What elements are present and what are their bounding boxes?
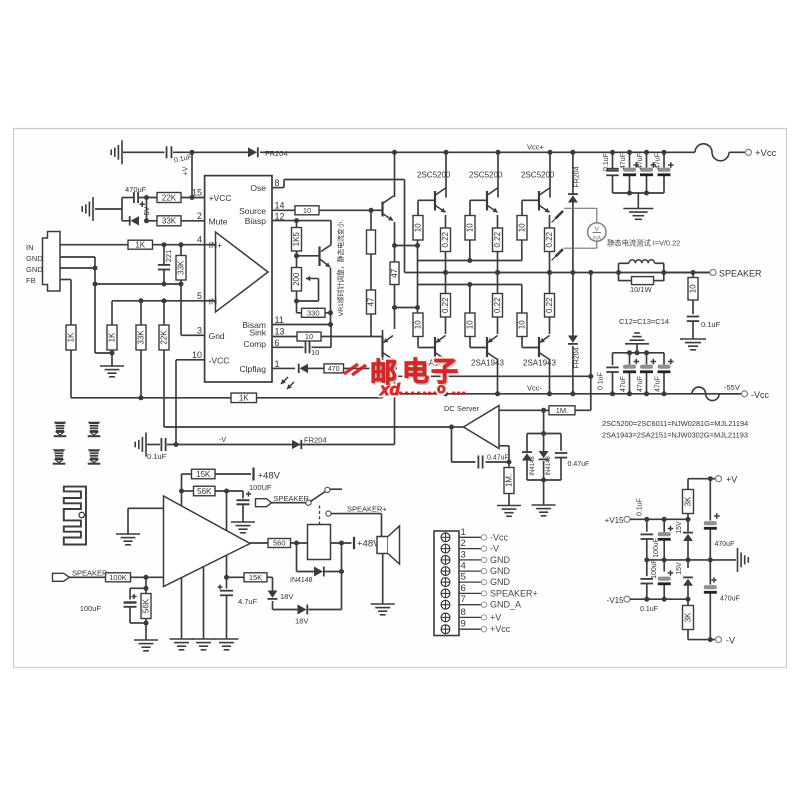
svg-text:56K: 56K — [141, 598, 150, 613]
svg-text:IN4148: IN4148 — [290, 577, 313, 584]
svg-text:+V: +V — [726, 475, 737, 485]
svg-text:+V15: +V15 — [605, 516, 624, 525]
svg-text:静态电流测试 I=V/0.22: 静态电流测试 I=V/0.22 — [607, 239, 680, 248]
svg-text:4: 4 — [197, 235, 202, 245]
svg-text:1K: 1K — [239, 394, 249, 403]
svg-text:47: 47 — [390, 268, 399, 277]
svg-text:-Vcc: -Vcc — [490, 532, 509, 542]
svg-text:o: o — [437, 380, 446, 396]
svg-text:47uF: 47uF — [620, 376, 627, 392]
svg-text:100UF: 100UF — [249, 483, 272, 492]
svg-text:8: 8 — [461, 607, 466, 618]
svg-text:200: 200 — [292, 272, 301, 286]
svg-text:100uF: 100uF — [80, 604, 102, 613]
svg-text:9: 9 — [461, 619, 466, 630]
svg-text:10: 10 — [413, 320, 422, 329]
svg-text:47uF: 47uF — [655, 153, 662, 169]
svg-text:Gnd: Gnd — [209, 331, 225, 341]
svg-text:0.1uF: 0.1uF — [640, 606, 658, 613]
svg-text:3: 3 — [461, 549, 466, 560]
svg-text:FR204: FR204 — [304, 436, 327, 445]
svg-text:-55V: -55V — [724, 383, 740, 392]
svg-text:100uF: 100uF — [653, 538, 660, 558]
svg-text:SPEAKER+: SPEAKER+ — [490, 588, 538, 598]
svg-text:15: 15 — [192, 188, 202, 198]
svg-text:xd: xd — [379, 380, 400, 399]
svg-text:SPEAKER: SPEAKER — [274, 494, 310, 503]
svg-text:GND: GND — [26, 265, 43, 274]
svg-text:Clpflag: Clpflag — [240, 364, 267, 374]
svg-text:10: 10 — [517, 320, 526, 329]
svg-text:14: 14 — [275, 201, 285, 211]
svg-text:11: 11 — [275, 315, 284, 325]
svg-text:5V: 5V — [144, 206, 151, 215]
svg-text:47uF: 47uF — [637, 153, 644, 169]
svg-text:V: V — [595, 226, 600, 233]
svg-text:2: 2 — [461, 538, 466, 549]
svg-text:10: 10 — [303, 206, 311, 215]
svg-text:FR204: FR204 — [574, 347, 581, 368]
svg-text:10/1W: 10/1W — [630, 285, 653, 294]
svg-text:VR1顺时针调整，静态电流变小.: VR1顺时针调整，静态电流变小. — [336, 220, 345, 317]
svg-text:470: 470 — [328, 366, 340, 373]
svg-text:0.22: 0.22 — [545, 297, 554, 313]
svg-text:33K: 33K — [136, 330, 145, 345]
svg-text:0.47uF: 0.47uF — [568, 461, 590, 468]
svg-text:SPEAKER+: SPEAKER+ — [347, 505, 387, 514]
svg-text:-V: -V — [490, 544, 499, 554]
svg-text:18V: 18V — [295, 617, 308, 626]
svg-text:470uF: 470uF — [720, 596, 740, 603]
svg-text:+48V: +48V — [258, 471, 281, 482]
svg-text:SPEAKER: SPEAKER — [719, 269, 762, 279]
svg-text:330: 330 — [307, 309, 320, 318]
svg-text:1: 1 — [461, 527, 466, 538]
svg-text:1M.: 1M. — [504, 474, 513, 487]
svg-text:-V15: -V15 — [607, 596, 624, 605]
svg-text:560: 560 — [273, 539, 286, 548]
svg-text:33K: 33K — [162, 217, 177, 226]
svg-text:GND: GND — [26, 254, 43, 263]
svg-text:Vcc+: Vcc+ — [527, 143, 545, 152]
svg-text:22K: 22K — [159, 330, 168, 345]
svg-text:Sink: Sink — [249, 328, 266, 338]
svg-text:22K: 22K — [162, 193, 177, 202]
svg-text:470uF: 470uF — [715, 541, 735, 548]
svg-text:+V: +V — [183, 166, 190, 175]
svg-text:FR204: FR204 — [265, 149, 288, 158]
svg-text:47uF: 47uF — [655, 376, 662, 392]
svg-text:10: 10 — [192, 350, 202, 360]
svg-text:GND_A: GND_A — [490, 600, 521, 610]
svg-text:0.22: 0.22 — [493, 231, 502, 247]
svg-text:221: 221 — [164, 250, 173, 263]
svg-text:IN: IN — [26, 243, 34, 252]
svg-text:0.1uF: 0.1uF — [147, 452, 167, 461]
svg-text:Source: Source — [239, 206, 266, 216]
svg-text:0.22: 0.22 — [441, 297, 450, 313]
svg-text:5: 5 — [197, 291, 202, 301]
svg-text:10: 10 — [305, 332, 313, 341]
svg-text:+Vcc: +Vcc — [755, 148, 777, 159]
svg-text:Mute: Mute — [209, 216, 228, 226]
svg-text:-Vcc: -Vcc — [751, 390, 770, 400]
svg-text:DC Server: DC Server — [444, 404, 480, 413]
svg-text:IN4148: IN4148 — [546, 456, 552, 476]
svg-text:1K: 1K — [66, 332, 75, 342]
svg-text:1M.: 1M. — [556, 406, 569, 415]
svg-text:8: 8 — [275, 178, 280, 188]
svg-text:Biasp: Biasp — [245, 216, 267, 226]
svg-text:0.1uF: 0.1uF — [598, 372, 605, 390]
svg-text:1K: 1K — [135, 241, 145, 250]
svg-text:100K: 100K — [109, 573, 127, 582]
svg-text:IN: IN — [209, 296, 218, 306]
svg-text:10: 10 — [688, 284, 697, 293]
svg-text:4.7uF: 4.7uF — [238, 597, 258, 606]
svg-text:2SA1943=2SA2151=NJW0302G=MJL21: 2SA1943=2SA2151=NJW0302G=MJL21193 — [602, 431, 748, 440]
svg-text:15V: 15V — [676, 562, 683, 575]
svg-text:0.1uF: 0.1uF — [701, 320, 721, 329]
svg-text:0.22: 0.22 — [441, 231, 450, 247]
svg-text:2SA1943: 2SA1943 — [523, 359, 556, 368]
svg-text:Comp: Comp — [243, 339, 266, 349]
svg-text:1K: 1K — [107, 332, 116, 342]
svg-text:1: 1 — [275, 359, 280, 369]
svg-text:3K: 3K — [683, 612, 692, 622]
svg-text:3: 3 — [197, 325, 202, 335]
svg-text:10: 10 — [413, 223, 422, 232]
svg-text:mA: mA — [593, 236, 602, 242]
svg-text:470uF: 470uF — [125, 185, 147, 194]
svg-text:Vcc-: Vcc- — [527, 384, 543, 393]
svg-text:47uF: 47uF — [620, 153, 627, 169]
svg-text:1K5: 1K5 — [292, 232, 301, 247]
svg-text:IN4148: IN4148 — [530, 456, 536, 476]
svg-text:2SA1943: 2SA1943 — [471, 359, 504, 368]
svg-text:6: 6 — [461, 583, 466, 594]
svg-text:0.22: 0.22 — [545, 231, 554, 247]
svg-text:+Vcc: +Vcc — [490, 624, 511, 634]
svg-text:GND: GND — [490, 566, 511, 576]
svg-text:FR204: FR204 — [574, 166, 581, 187]
svg-text:C12=C13=C14: C12=C13=C14 — [619, 317, 669, 326]
svg-text:5: 5 — [461, 572, 466, 583]
svg-text:15K: 15K — [196, 470, 211, 479]
svg-text:GND: GND — [490, 577, 511, 587]
svg-text:0.47uF: 0.47uF — [487, 455, 509, 462]
svg-text:Ose: Ose — [250, 183, 266, 193]
svg-text:13: 13 — [275, 327, 285, 337]
svg-text:0.1uF: 0.1uF — [603, 153, 610, 171]
svg-text:10: 10 — [517, 223, 526, 232]
svg-text:4: 4 — [461, 561, 466, 572]
svg-text:-V: -V — [726, 636, 735, 646]
svg-text:2SC5200=2SC6011=NJW0281G=MJL21: 2SC5200=2SC6011=NJW0281G=MJL21194 — [602, 419, 748, 428]
svg-text:IN+: IN+ — [209, 240, 223, 250]
svg-text:10: 10 — [311, 348, 319, 357]
svg-text:+VCC: +VCC — [209, 193, 232, 203]
svg-text:SPEAKER: SPEAKER — [72, 569, 108, 578]
svg-text:56K: 56K — [197, 487, 212, 496]
svg-text:0.1uF: 0.1uF — [637, 498, 644, 516]
svg-text:100uF: 100uF — [651, 559, 658, 579]
svg-text:-V: -V — [219, 437, 226, 444]
svg-text:-VCC: -VCC — [209, 355, 230, 365]
svg-text:18V: 18V — [280, 592, 293, 601]
svg-text:电子: 电子 — [402, 357, 460, 387]
svg-text:47uF: 47uF — [637, 376, 644, 392]
svg-text:47: 47 — [366, 297, 375, 306]
svg-text:7: 7 — [461, 594, 466, 605]
svg-text:GND: GND — [490, 555, 511, 565]
svg-text:3K: 3K — [683, 496, 692, 506]
svg-text:10: 10 — [465, 320, 474, 329]
svg-text:15V: 15V — [676, 521, 683, 534]
svg-text:FB: FB — [26, 276, 36, 285]
svg-text:10: 10 — [465, 223, 474, 232]
svg-text:15K: 15K — [249, 573, 262, 582]
svg-text:+V: +V — [490, 612, 501, 622]
svg-text:2: 2 — [197, 211, 202, 221]
svg-text:33K: 33K — [176, 260, 185, 275]
svg-text:0.22: 0.22 — [493, 297, 502, 313]
